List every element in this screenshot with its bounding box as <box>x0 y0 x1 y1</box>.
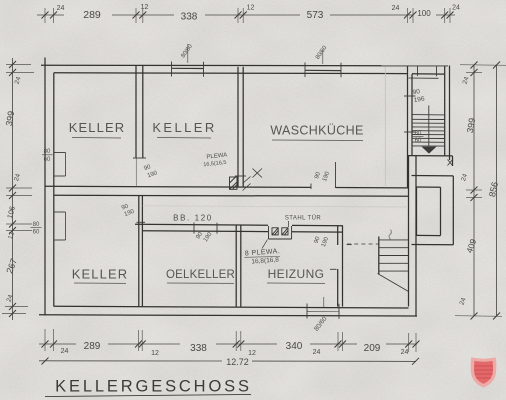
svg-text:24: 24 <box>61 348 69 355</box>
svg-text:80: 80 <box>44 149 51 155</box>
svg-text:24: 24 <box>401 349 409 356</box>
svg-text:289: 289 <box>83 9 101 21</box>
svg-text:KELLERGESCHOSS: KELLERGESCHOSS <box>55 378 252 396</box>
svg-text:HEIZUNG: HEIZUNG <box>268 267 325 281</box>
svg-text:BB. 120: BB. 120 <box>173 214 213 223</box>
svg-text:24: 24 <box>452 5 460 12</box>
svg-text:KELLER: KELLER <box>72 267 128 282</box>
svg-text:60: 60 <box>415 138 422 144</box>
svg-text:338: 338 <box>181 12 198 23</box>
svg-text:573: 573 <box>307 10 324 21</box>
svg-text:12: 12 <box>141 4 149 11</box>
svg-text:OELKELLER: OELKELLER <box>166 269 235 281</box>
svg-text:24: 24 <box>313 349 321 356</box>
svg-text:12.72: 12.72 <box>226 357 249 367</box>
svg-text:24: 24 <box>57 5 65 12</box>
svg-text:KELLER: KELLER <box>69 120 125 135</box>
svg-text:289: 289 <box>84 341 101 352</box>
svg-text:STAHL TÜR: STAHL TÜR <box>285 215 321 222</box>
svg-text:338: 338 <box>190 343 207 354</box>
svg-text:24: 24 <box>392 5 400 12</box>
svg-text:12: 12 <box>248 350 256 357</box>
svg-text:209: 209 <box>364 343 381 354</box>
svg-text:340: 340 <box>286 341 303 352</box>
svg-text:12: 12 <box>151 350 159 357</box>
svg-text:60: 60 <box>33 230 40 236</box>
svg-text:100: 100 <box>417 9 431 18</box>
svg-text:80: 80 <box>33 222 40 228</box>
svg-text:WASCHKÜCHE: WASCHKÜCHE <box>270 124 363 138</box>
svg-text:80: 80 <box>415 131 422 137</box>
svg-text:KELLER: KELLER <box>152 120 216 135</box>
svg-text:60: 60 <box>44 157 51 163</box>
svg-text:12: 12 <box>247 5 255 12</box>
